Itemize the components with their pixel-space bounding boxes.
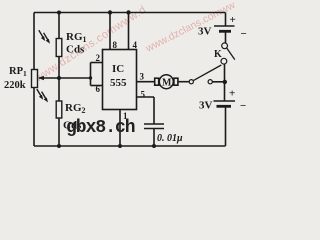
node: switch junction dot: [223, 80, 227, 84]
svg-text:+: +: [229, 88, 235, 100]
motor M1 circle: [159, 75, 173, 89]
node: bottom rail dot capacitor: [152, 144, 156, 148]
wire: pin 8 vertical: [109, 13, 111, 50]
wire: wiper horizontal: [39, 77, 91, 79]
switch K contact A: [222, 43, 228, 49]
svg-text:Cds: Cds: [66, 44, 85, 56]
switch K contact B: [221, 58, 227, 64]
wire: pin 5 horizontal: [137, 96, 155, 98]
svg-text:3: 3: [140, 72, 145, 82]
node: wiper-bracket junction dot: [89, 76, 92, 79]
svg-text:3V: 3V: [198, 26, 212, 38]
photoresistor RG1 light arrows: [39, 30, 50, 43]
wire: pin 4 vertical: [128, 13, 130, 50]
svg-text:gbx8.ch: gbx8.ch: [66, 118, 135, 138]
capacitor C1 plates: [144, 124, 164, 129]
svg-text:6: 6: [96, 84, 101, 94]
node: top rail dot pin 4: [126, 10, 130, 14]
svg-text:+: +: [230, 14, 236, 26]
photoresistor RG2 body: [56, 101, 62, 118]
wire: switch B to battery2: [224, 64, 226, 101]
svg-text:IC: IC: [112, 63, 124, 75]
battery B2 long plate: [214, 100, 236, 102]
wire: RG2 to bottom rail: [58, 118, 60, 146]
motor M1 right terminal: [174, 78, 178, 85]
red watermark line A: [32, 4, 148, 85]
wire: switch C2 to junction: [212, 81, 224, 83]
switch K upper lever: [227, 48, 235, 60]
wire: RG branch top (rail to RG1): [58, 13, 60, 39]
node: top rail dot pin 8: [108, 10, 112, 14]
svg-text:555: 555: [110, 77, 127, 89]
wire: pin 6 stub: [91, 85, 103, 87]
potentiometer RP1 body: [32, 70, 38, 88]
wire: battery1 to switch A: [225, 31, 227, 43]
node: divider junction dot: [57, 76, 61, 80]
node: bottom rail dot RG branch: [57, 144, 61, 148]
wire: motor to switch C1: [178, 81, 189, 83]
photoresistor RG2 light arrows: [37, 89, 48, 102]
svg-text:220k: 220k: [4, 80, 26, 91]
switch K contact C1: [189, 80, 193, 84]
switch K contact C2: [208, 80, 212, 84]
battery B1 long plate: [214, 25, 235, 27]
svg-text:K: K: [214, 49, 222, 60]
potentiometer RP1 wiper arrowhead: [38, 76, 44, 80]
wire: bottom rail: [34, 145, 226, 147]
photoresistor RG1 body: [56, 39, 62, 57]
svg-text:3V: 3V: [199, 100, 213, 112]
node: bottom rail dot pin 1: [118, 144, 122, 148]
wire: pin2/6 bracket vertical: [90, 63, 92, 86]
svg-text:8: 8: [113, 40, 118, 50]
battery B2 short plate: [217, 105, 232, 108]
wire: cap bottom vertical: [153, 129, 155, 147]
wire: pin 3 to motor: [137, 81, 155, 83]
op-amp/timer IC U1 box: [103, 50, 137, 110]
svg-text:2: 2: [96, 53, 101, 63]
wire: left branch lower (RP1 to bottom rail): [33, 88, 35, 147]
wire: battery2 to bottom rail: [225, 106, 227, 146]
wire: left branch upper (top rail to RP1): [33, 13, 35, 70]
motor M1 left terminal: [155, 78, 159, 85]
wire: cap top vertical: [153, 97, 155, 124]
svg-text:5: 5: [141, 90, 146, 100]
wire: top rail: [34, 12, 226, 14]
node: top rail dot at RG branch: [57, 11, 61, 15]
battery B1 short plate: [219, 30, 231, 33]
wire: RG1 to junction: [58, 57, 60, 102]
svg-text:−: −: [240, 100, 246, 112]
svg-text:0. 01μ: 0. 01μ: [157, 133, 183, 144]
svg-text:4: 4: [133, 40, 138, 50]
wire: pin 1 vertical: [119, 110, 121, 147]
svg-text:−: −: [241, 28, 247, 40]
switch K long lever: [194, 65, 222, 80]
svg-text:M: M: [162, 78, 172, 89]
red watermark line B: [143, 0, 238, 55]
wire: rail corner to battery1: [225, 13, 227, 27]
wire: pin 2 stub: [91, 62, 103, 64]
